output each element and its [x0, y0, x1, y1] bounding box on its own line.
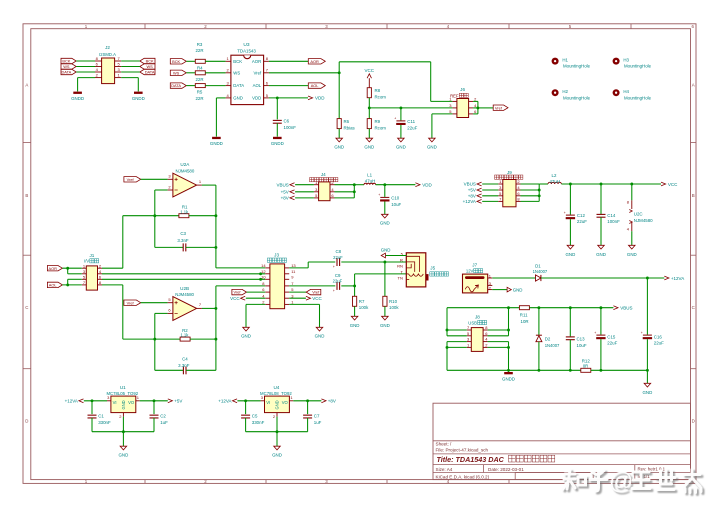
svg-text:GND: GND: [334, 144, 344, 149]
svg-text:22uF: 22uF: [577, 219, 587, 224]
svg-text:GND: GND: [596, 252, 606, 257]
svg-text:DATA: DATA: [145, 70, 155, 75]
svg-text:Date: 2022-03-01: Date: 2022-03-01: [488, 467, 524, 472]
svg-text:GND: GND: [121, 400, 126, 409]
svg-text:47uH: 47uH: [550, 179, 561, 184]
svg-text:C9: C9: [335, 273, 341, 278]
svg-text:U2C: U2C: [634, 211, 643, 216]
svg-text:22uF: 22uF: [654, 341, 664, 346]
svg-text:13: 13: [291, 263, 296, 268]
svg-text:GND: GND: [396, 144, 406, 149]
svg-text:22uF: 22uF: [407, 125, 417, 130]
svg-text:Vref: Vref: [253, 70, 262, 75]
svg-text:J8: J8: [475, 315, 480, 320]
svg-text:MountingHole: MountingHole: [624, 64, 652, 69]
svg-text:VBUS: VBUS: [277, 182, 289, 187]
svg-text:J4: J4: [321, 172, 326, 177]
svg-text:3.3nF: 3.3nF: [178, 363, 190, 368]
svg-text:D1: D1: [535, 263, 541, 268]
svg-text:MountingHole: MountingHole: [563, 64, 591, 69]
svg-text:WS: WS: [173, 70, 180, 75]
svg-text:R4: R4: [197, 66, 203, 71]
svg-text:File: Project-47.kicad_sch: File: Project-47.kicad_sch: [436, 448, 489, 453]
svg-text:H4: H4: [623, 89, 629, 94]
svg-text:KiCad E.D.A. kicad (6.0.2): KiCad E.D.A. kicad (6.0.2): [436, 474, 490, 479]
svg-text:3.3nF: 3.3nF: [177, 238, 189, 243]
svg-text:U4: U4: [273, 385, 279, 390]
svg-text:C15: C15: [607, 334, 616, 339]
svg-text:+: +: [333, 265, 335, 269]
svg-text:GND: GND: [350, 323, 360, 328]
svg-text:+8V: +8V: [468, 194, 476, 199]
svg-text:330nF: 330nF: [98, 420, 111, 425]
svg-text:12: 12: [261, 269, 266, 274]
svg-text:100nF: 100nF: [607, 219, 620, 224]
svg-text:+8V: +8V: [281, 196, 289, 201]
svg-text:VDD: VDD: [422, 182, 432, 187]
svg-text:J9: J9: [507, 170, 512, 175]
svg-text:MC78L08_TO92: MC78L08_TO92: [260, 391, 292, 396]
svg-text:VCC: VCC: [365, 68, 375, 73]
svg-text:100k: 100k: [389, 305, 399, 310]
svg-text:VO: VO: [128, 400, 135, 405]
svg-text:C7: C7: [314, 414, 320, 419]
svg-text:GND: GND: [380, 323, 390, 328]
svg-text:1N4007: 1N4007: [545, 343, 560, 348]
svg-text:J3: J3: [274, 252, 279, 257]
svg-text:+: +: [394, 117, 396, 121]
svg-text:GND: GND: [380, 220, 390, 225]
svg-text:1uF: 1uF: [314, 420, 322, 425]
svg-text:Rbias: Rbias: [344, 126, 356, 131]
svg-text:NJM4580: NJM4580: [175, 292, 194, 297]
svg-text:Title: TDA1543 DAC: Title: TDA1543 DAC: [437, 455, 505, 464]
svg-text:C13: C13: [577, 337, 586, 342]
svg-text:GND: GND: [627, 252, 637, 257]
svg-text:100nF: 100nF: [284, 125, 297, 130]
svg-text:U1: U1: [120, 385, 126, 390]
svg-text:BCK: BCK: [146, 59, 154, 64]
svg-text:+5V: +5V: [468, 188, 476, 193]
svg-text:MountingHole: MountingHole: [563, 95, 591, 100]
svg-text:R11: R11: [520, 313, 528, 318]
svg-text:C6: C6: [284, 118, 290, 123]
svg-text:Vref: Vref: [127, 300, 135, 305]
svg-text:VI: VI: [113, 400, 117, 405]
svg-text:GND: GND: [272, 453, 282, 458]
svg-text:0R: 0R: [583, 363, 588, 368]
svg-text:DATA: DATA: [233, 83, 244, 88]
svg-text:VBUS: VBUS: [620, 306, 632, 311]
svg-text:10uF: 10uF: [577, 343, 587, 348]
svg-text:GND: GND: [119, 453, 129, 458]
svg-text:C3: C3: [180, 231, 186, 236]
svg-text:VCC: VCC: [312, 296, 322, 301]
svg-text:TN: TN: [398, 276, 403, 281]
svg-text:47uH: 47uH: [365, 179, 376, 184]
svg-text:1.1k: 1.1k: [180, 333, 189, 338]
svg-text:GNDD: GNDD: [271, 141, 284, 146]
svg-text:C1: C1: [98, 414, 104, 419]
svg-text:+: +: [378, 193, 380, 197]
svg-text:VBUS: VBUS: [464, 182, 476, 187]
svg-text:TDA1543: TDA1543: [237, 49, 256, 54]
svg-text:R3: R3: [197, 42, 203, 47]
svg-text:J6: J6: [460, 87, 465, 92]
svg-text:MC78L05_TO92: MC78L05_TO92: [106, 391, 138, 396]
svg-text:+: +: [333, 289, 335, 293]
svg-text:J5: J5: [430, 266, 435, 271]
svg-text:@: @: [609, 468, 633, 495]
svg-text:U2A: U2A: [180, 162, 190, 167]
svg-text:12V: 12V: [466, 269, 474, 274]
svg-text:C5: C5: [252, 414, 258, 419]
svg-text:AOR: AOR: [48, 266, 57, 271]
svg-text:Vref: Vref: [234, 290, 242, 295]
svg-text:+: +: [564, 211, 566, 215]
svg-text:A: A: [692, 83, 695, 88]
svg-text:R10: R10: [389, 299, 398, 304]
svg-text:GND: GND: [513, 287, 523, 292]
svg-text:+: +: [641, 331, 643, 335]
svg-text:R6: R6: [344, 119, 350, 124]
svg-text:R7: R7: [359, 299, 365, 304]
svg-text:22uF: 22uF: [333, 279, 343, 284]
svg-text:WS: WS: [233, 70, 240, 75]
svg-text:GND: GND: [427, 144, 437, 149]
svg-text:DATA: DATA: [171, 83, 181, 88]
svg-text:14: 14: [261, 263, 266, 268]
svg-text:22uF: 22uF: [333, 255, 343, 260]
svg-text:D: D: [25, 419, 28, 424]
svg-text:AOL: AOL: [253, 83, 262, 88]
svg-text:BCK: BCK: [172, 59, 180, 64]
svg-text:+12VA: +12VA: [218, 399, 231, 404]
svg-text:VCC: VCC: [668, 182, 678, 187]
svg-text:GNDD: GNDD: [210, 141, 223, 146]
svg-text:H3: H3: [623, 57, 629, 62]
svg-text:C12: C12: [577, 213, 586, 218]
svg-text:AOL: AOL: [311, 83, 320, 88]
svg-text:GND: GND: [275, 400, 280, 409]
svg-text:R: R: [400, 257, 403, 262]
svg-text:U3: U3: [243, 42, 249, 48]
svg-text:VDD: VDD: [315, 96, 325, 101]
svg-text:22R: 22R: [195, 48, 203, 53]
svg-text:100k: 100k: [359, 305, 369, 310]
svg-text:GNDD: GNDD: [502, 377, 515, 382]
svg-text:22R: 22R: [195, 96, 203, 101]
svg-text:H2: H2: [562, 89, 568, 94]
svg-text:10: 10: [261, 274, 266, 279]
svg-text:D: D: [692, 419, 695, 424]
svg-text:DATA: DATA: [61, 70, 71, 75]
svg-text:1uF: 1uF: [160, 420, 168, 425]
svg-text:GND: GND: [233, 96, 243, 101]
svg-text:C: C: [692, 305, 695, 310]
svg-text:+5V: +5V: [174, 399, 182, 404]
svg-text:RN: RN: [397, 264, 403, 269]
svg-text:R5: R5: [197, 90, 203, 95]
svg-text:WS: WS: [63, 64, 70, 69]
svg-text:Sheet: /: Sheet: /: [436, 442, 453, 447]
svg-text:A: A: [25, 83, 28, 88]
svg-text:VCC: VCC: [230, 296, 240, 301]
svg-text:J2: J2: [105, 45, 110, 50]
svg-text:L2: L2: [552, 173, 557, 178]
svg-text:C2: C2: [160, 414, 166, 419]
svg-text:U2B: U2B: [180, 286, 189, 291]
svg-text:10uF: 10uF: [391, 202, 401, 207]
svg-text:AOR: AOR: [252, 59, 261, 64]
svg-text:+5V: +5V: [281, 190, 289, 195]
svg-text:C8: C8: [335, 249, 341, 254]
svg-text:GNDD: GNDD: [132, 96, 145, 101]
svg-text:BCK: BCK: [62, 59, 70, 64]
svg-text:Vref: Vref: [312, 290, 320, 295]
svg-text:1.1k: 1.1k: [180, 209, 189, 214]
svg-text:GND: GND: [566, 252, 576, 257]
svg-text:J7: J7: [472, 263, 477, 268]
svg-text:VI: VI: [266, 400, 270, 405]
svg-text:GNDD: GNDD: [71, 96, 84, 101]
svg-text:L1: L1: [367, 172, 372, 177]
svg-text:GND: GND: [364, 144, 374, 149]
svg-text:C11: C11: [407, 119, 415, 124]
svg-text:+12VA: +12VA: [65, 399, 78, 404]
svg-text:GND: GND: [643, 390, 653, 395]
svg-text:I2SMD.A: I2SMD.A: [99, 52, 116, 57]
svg-text:AOL: AOL: [49, 282, 58, 287]
svg-text:NJM4580: NJM4580: [634, 218, 653, 223]
svg-text:C: C: [25, 305, 28, 310]
svg-text:VDD: VDD: [252, 96, 261, 101]
svg-text:R9: R9: [375, 119, 381, 124]
svg-text:Rcom: Rcom: [375, 95, 387, 100]
svg-text:C14: C14: [607, 213, 616, 218]
svg-text:MountingHole: MountingHole: [624, 95, 652, 100]
svg-text:BCK: BCK: [233, 59, 242, 64]
svg-text:VO: VO: [282, 400, 289, 405]
svg-text:Vref: Vref: [495, 105, 503, 110]
svg-text:C4: C4: [182, 356, 188, 361]
svg-text:GND: GND: [381, 248, 391, 253]
svg-text:Rcom: Rcom: [375, 126, 387, 131]
svg-text:22R: 22R: [195, 77, 203, 82]
svg-text:J1: J1: [89, 253, 94, 258]
svg-text:+12VA: +12VA: [671, 276, 684, 281]
svg-text:C10: C10: [391, 195, 400, 200]
svg-text:B: B: [692, 193, 695, 198]
svg-text:AOR: AOR: [310, 59, 319, 64]
svg-text:Size: A4: Size: A4: [436, 467, 453, 472]
svg-text:330nF: 330nF: [252, 420, 265, 425]
svg-text:R8: R8: [375, 88, 381, 93]
svg-text:C16: C16: [654, 334, 663, 339]
svg-text:Vref: Vref: [127, 177, 135, 182]
svg-text:+: +: [594, 331, 596, 335]
svg-text:GND: GND: [241, 334, 251, 339]
svg-text:+12VA: +12VA: [463, 199, 476, 204]
svg-text:USB: USB: [468, 320, 477, 325]
svg-text:D2: D2: [545, 336, 551, 341]
svg-text:WS: WS: [146, 64, 153, 69]
svg-text:NJM4580: NJM4580: [176, 168, 195, 173]
svg-text:B: B: [25, 193, 28, 198]
svg-text:+8V: +8V: [328, 399, 336, 404]
svg-text:10R: 10R: [521, 319, 529, 324]
svg-text:H1: H1: [562, 57, 568, 62]
svg-text:GND: GND: [315, 334, 325, 339]
svg-text:22uF: 22uF: [607, 341, 617, 346]
svg-text:1N4007: 1N4007: [533, 269, 548, 274]
